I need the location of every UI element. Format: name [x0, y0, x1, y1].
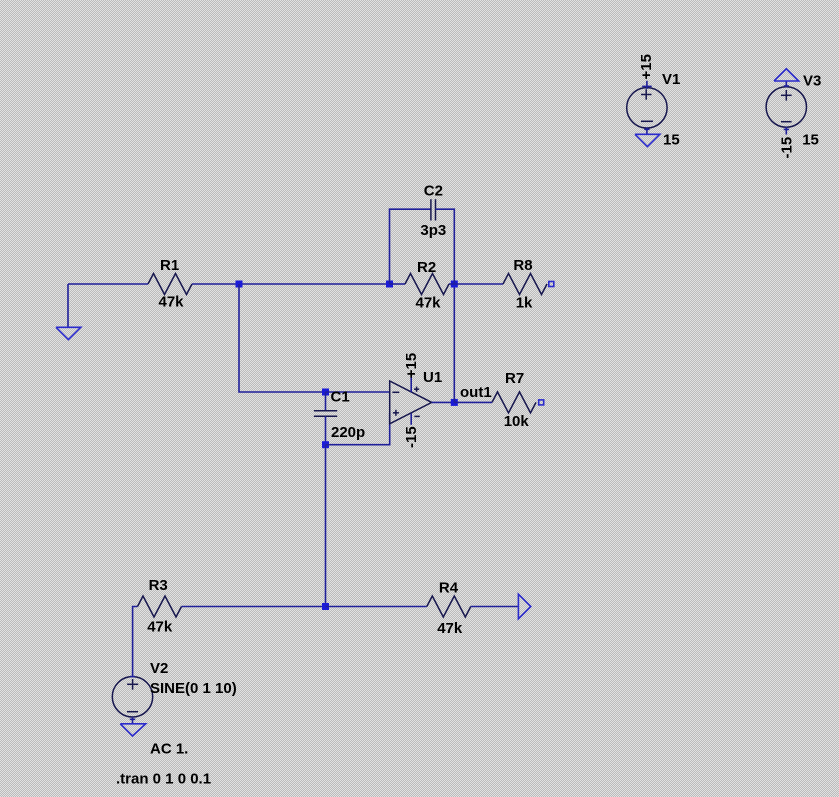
- op-amp V+ pin flag (+15): [403, 353, 420, 392]
- op-amp V- pin flag (-15): [403, 413, 420, 448]
- node junction B (C1 top / inverting input net): [322, 389, 329, 396]
- resistor R2: [390, 259, 455, 312]
- svg-text:R2: R2: [417, 259, 436, 276]
- svg-text:C2: C2: [424, 183, 443, 200]
- svg-text:R4: R4: [439, 580, 459, 597]
- svg-text:SINE(0 1 10): SINE(0 1 10): [150, 680, 237, 697]
- voltage source V3: [766, 73, 821, 128]
- wire C1 node to op-amp inverting input: [326, 391, 391, 393]
- svg-text:V3: V3: [803, 73, 821, 90]
- port square at R8 right: [549, 282, 554, 287]
- svg-text:+15: +15: [638, 54, 655, 79]
- output arrow flag: [518, 594, 530, 619]
- svg-text:220p: 220p: [331, 424, 365, 441]
- svg-text:V1: V1: [662, 71, 680, 88]
- svg-text:47k: 47k: [416, 295, 442, 312]
- wire node A down to C1 level: [239, 284, 326, 392]
- node out1 junction: [451, 399, 458, 406]
- svg-text:10k: 10k: [504, 413, 530, 430]
- svg-text:47k: 47k: [437, 620, 463, 637]
- wire C1 bottom down to lower rail: [325, 445, 327, 607]
- resistor R8: [503, 257, 547, 312]
- wire lower rail left (R3 corner to zigzag): [133, 607, 138, 677]
- svg-text:R3: R3: [149, 577, 168, 594]
- svg-text:.tran 0 1 0 0.1: .tran 0 1 0 0.1: [116, 771, 211, 788]
- svg-text:15: 15: [802, 132, 819, 149]
- wire R1 right to R2 left node: [192, 283, 390, 285]
- op-amp U1: [390, 369, 442, 424]
- net flag -15 below V3: [779, 127, 819, 159]
- wire R1 left lead: [68, 283, 148, 285]
- wire lower junction to R4: [326, 606, 427, 608]
- wire C2 right branch: [436, 209, 455, 284]
- resistor R1: [148, 257, 192, 311]
- svg-text:R8: R8: [513, 257, 532, 274]
- resistor R7: [492, 370, 536, 430]
- svg-text:1k: 1k: [516, 295, 533, 312]
- svg-text:-15: -15: [403, 426, 420, 448]
- wire out1 to R7: [454, 401, 492, 403]
- svg-text:C1: C1: [331, 389, 350, 406]
- wire C2 left branch: [390, 209, 431, 284]
- wire out1 up to feedback rail: [453, 284, 455, 402]
- resistor R4: [427, 580, 471, 638]
- ground G2 (below V2): [120, 717, 145, 736]
- voltage source V2: [112, 660, 236, 717]
- svg-text:out1: out1: [460, 384, 492, 401]
- svg-text:R1: R1: [160, 257, 179, 274]
- node junction C (C1 bottom): [322, 441, 329, 448]
- svg-text:V2: V2: [150, 660, 168, 677]
- node junction A (R1 right / feedback tap): [236, 281, 243, 288]
- svg-text:+15: +15: [403, 353, 420, 378]
- svg-text:3p3: 3p3: [420, 222, 446, 239]
- wire R4 right to output arrow: [471, 606, 519, 608]
- capacitor C1: [314, 389, 365, 445]
- node junction D (R2 right / C2 right / R8 / out riser): [451, 281, 458, 288]
- ground G3 (below V1): [635, 128, 680, 149]
- resistor R3: [138, 577, 182, 636]
- net flag +15 above V1: [638, 54, 655, 89]
- svg-text:-15: -15: [779, 137, 796, 159]
- svg-text:47k: 47k: [147, 619, 173, 636]
- wire R3 right to lower junction: [182, 606, 326, 608]
- wire R2 right node to R8: [454, 283, 503, 285]
- ground G1 (left of R1): [56, 284, 81, 340]
- svg-text:U1: U1: [423, 369, 442, 386]
- wire op-amp output: [432, 401, 455, 403]
- voltage source V1: [627, 71, 681, 128]
- port square at R7 right: [539, 400, 544, 405]
- svg-text:47k: 47k: [159, 294, 185, 311]
- wire C1 bottom to op-amp non-inverting input: [326, 413, 390, 445]
- svg-text:15: 15: [663, 132, 680, 149]
- node junction F (lower rail): [322, 603, 329, 610]
- capacitor C2: [420, 183, 446, 239]
- net flag -15 above V3 (inverted triangle flag): [774, 69, 799, 87]
- svg-text:AC 1.: AC 1.: [150, 741, 188, 758]
- node junction E (R2 left / C2 left): [386, 281, 393, 288]
- svg-text:R7: R7: [505, 370, 524, 387]
